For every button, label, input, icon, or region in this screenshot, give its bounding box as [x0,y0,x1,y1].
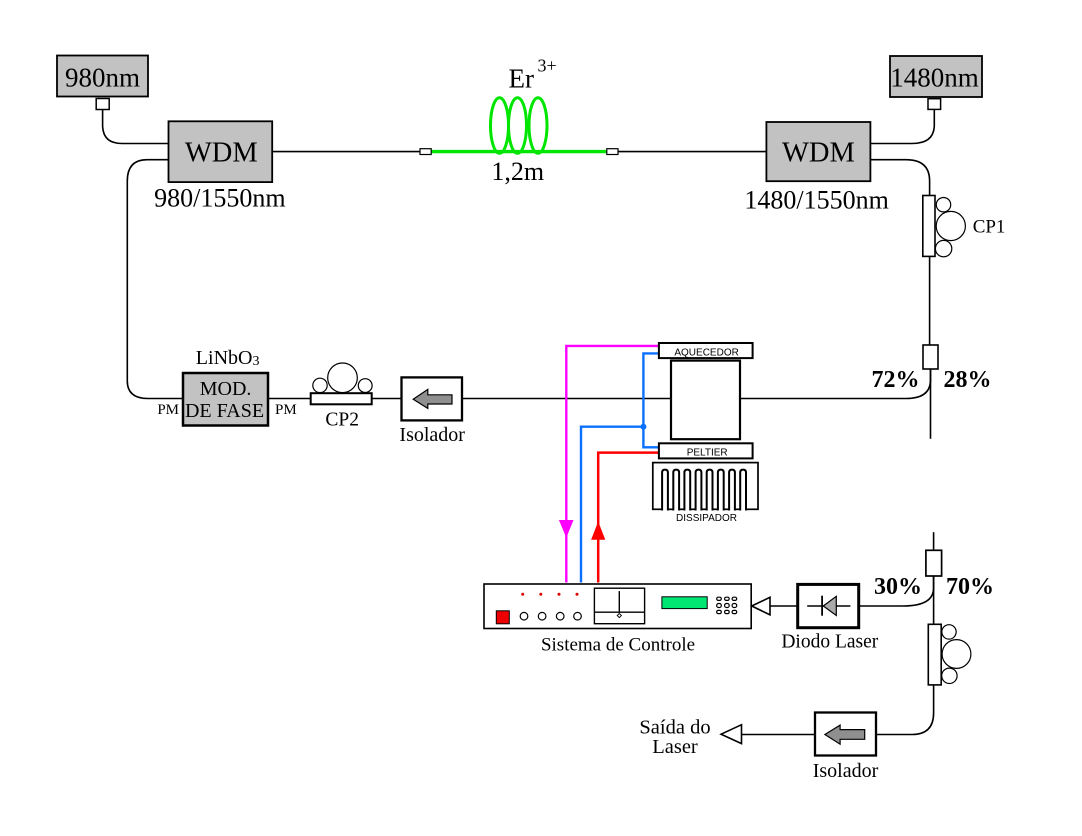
wire: WDM2 lower right port to CP1 [870,160,929,196]
svg-text:Isolador: Isolador [813,760,879,782]
svg-text:1480nm: 1480nm [890,62,979,92]
svg-text:PM: PM [157,402,179,418]
wire: erbium fiber to WDM2 [618,151,766,153]
diode laser box [798,584,859,627]
wire: output isolator to output arrow [742,734,815,736]
svg-text:Isolador: Isolador [399,424,465,446]
svg-text:DISSIPADOR: DISSIPADOR [676,513,737,524]
heater AQUECEDOR [659,343,753,358]
output arrow [721,725,741,744]
wire: WDM2 upper right port to 1480nm pigtail [870,109,934,143]
pump laser 1480nm [890,56,982,97]
svg-text:3+: 3+ [538,56,557,76]
wire: red peltier line to control box [598,453,659,583]
heatsink DISSIPADOR [653,463,758,511]
svg-text:Er: Er [509,64,534,94]
junction dot blue [640,424,646,430]
svg-text:MOD.: MOD. [200,378,252,400]
polarization controller CP3 [928,624,971,685]
wire: blue branch to control box [581,427,643,583]
coupler 30/70 [926,550,942,576]
wire: stub into coupler 30/70 from top [933,532,935,549]
output isolator [815,713,876,756]
phase modulator MOD. DE FASE [183,373,268,426]
polarization controller CP1 [923,196,966,257]
wire: diode laser to coupler 30/70 [859,576,934,606]
svg-text:Diodo Laser: Diodo Laser [781,632,878,653]
wire: main fiber from modulator through CP2, isolator, heater to coupler 72/28 [268,369,931,399]
splice connector left of erbium fiber [420,149,431,155]
svg-text:72%: 72% [872,367,920,393]
wire: blue thermistor line [643,353,659,447]
erbium coil loop 3 [529,98,547,154]
wire: CP3 down to output isolator [877,685,934,735]
WDM 980/1550 [169,121,273,182]
wire: 28% output going down [930,369,932,439]
svg-text:1480/1550nm: 1480/1550nm [744,186,888,215]
svg-text:LiNbO3: LiNbO3 [196,347,260,369]
arrowhead magenta down [559,520,574,538]
erbium coil loop 1 [491,98,509,154]
oven box [671,361,740,440]
svg-text:Sistema de Controle: Sistema de Controle [541,635,695,656]
wire: 980nm pigtail to WDM1 [103,109,169,143]
wire: CP1 to coupler 72/28 [929,256,931,345]
svg-text:Laser: Laser [652,736,698,758]
svg-text:70%: 70% [946,574,994,600]
erbium coil loop 2 [509,98,527,154]
peltier PELTIER [659,443,753,458]
svg-text:CP1: CP1 [973,217,1006,238]
wire: magenta control line to heater [566,346,659,583]
arrow into control box [752,597,770,615]
wire: control arrow to diode laser [770,605,798,607]
svg-text:DE FASE: DE FASE [185,400,264,422]
svg-text:PM: PM [275,402,297,418]
connector below 980nm [96,99,109,110]
svg-text:28%: 28% [944,367,992,393]
pump laser 980nm [57,56,148,97]
svg-text:WDM: WDM [782,138,855,169]
erbium fiber green line [431,150,607,153]
svg-text:30%: 30% [874,574,922,600]
svg-text:WDM: WDM [185,138,258,169]
control box Sistema de Controle [484,584,751,629]
wire: coupler 30/70 to CP3 [933,576,935,624]
svg-text:PELTIER: PELTIER [687,448,728,459]
svg-text:AQUECEDOR: AQUECEDOR [674,347,738,358]
wire: WDM1 right port to erbium fiber [272,151,420,153]
coupler 72/28 [923,345,938,369]
arrowhead red up [591,522,605,540]
WDM 1480/1550 [766,122,870,181]
svg-text:980nm: 980nm [65,62,140,92]
keypad on control box [717,597,737,613]
connector below 1480nm [928,99,941,110]
splice connector right of erbium fiber [607,149,618,155]
polarization controller CP2 [311,363,372,404]
svg-text:CP2: CP2 [325,410,359,431]
svg-text:1,2m: 1,2m [491,157,544,186]
svg-text:980/1550nm: 980/1550nm [154,184,285,213]
wire: WDM1 lower left port loop down to phase modulator [127,160,183,399]
isolator (intracavity) [402,377,463,420]
